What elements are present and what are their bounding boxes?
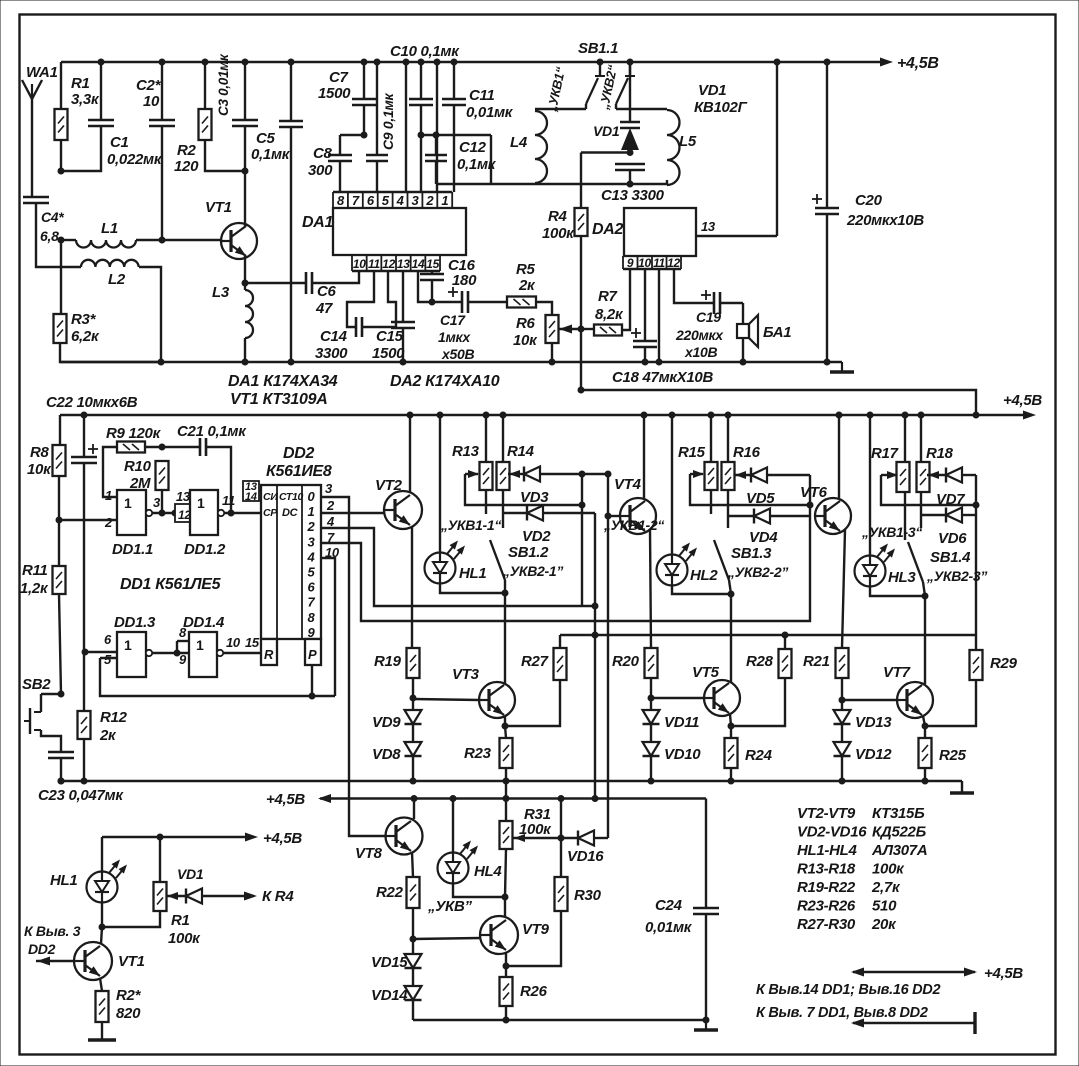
svg-text:С11: С11 [469,87,495,104]
capacitor C12 [425,154,447,157]
svg-text:VD9: VD9 [372,714,401,731]
wire R31 wiper line [513,837,578,839]
wire DD1.3 pin5 loop [100,658,335,696]
wire C8 drop [339,135,341,155]
node R22-VT9base [410,936,417,943]
wire C4 to L2 [36,203,81,267]
svg-text:3: 3 [153,495,161,510]
node C20 rail [824,59,831,66]
node VT9 emitter [503,963,510,970]
wire VT8 emitter [412,852,413,877]
svg-text:300: 300 [308,162,333,179]
wire R17 wiper [881,474,897,476]
plus C18 [631,332,641,334]
svg-text:R9 120к: R9 120к [106,425,162,442]
node R21-VD13 [839,697,846,704]
svg-text:К R4: К R4 [262,888,294,905]
node pin13 rail [774,59,781,66]
svg-text:HL4: HL4 [474,863,502,880]
node rail x421 [418,59,425,66]
wire VT5 base [651,697,704,699]
node VD10 rail [648,778,655,785]
node C24 rail [703,1017,710,1024]
wire R19 bottom [412,678,414,710]
svg-text:VD13: VD13 [855,714,892,731]
wire C8 top [340,134,364,136]
svg-text:3,3к: 3,3к [71,91,100,108]
node VD1-C13 [627,149,634,156]
svg-text:R15: R15 [678,444,706,461]
node R1b rail [157,834,164,841]
svg-text:С4*: С4* [41,209,64,225]
svg-text:R16: R16 [733,444,761,461]
diode VD10 [643,742,660,756]
svg-text:10: 10 [638,256,651,270]
svg-text:VD3: VD3 [520,489,549,506]
svg-text:47: 47 [315,300,333,317]
wire pin11 loop [347,271,374,327]
wire pin12 to C19 [674,269,714,303]
svg-text:11: 11 [653,256,665,270]
svg-text:8,2к: 8,2к [595,306,624,323]
wire lower +4,5V rail [320,797,706,799]
svg-text:2: 2 [104,515,113,530]
capacitor C5 [279,120,303,123]
svg-text:VD4: VD4 [749,529,778,546]
wire C8 bottom [339,161,341,192]
wire R25 bottom [924,768,926,781]
resistor R13 [480,462,493,490]
node DD1.2 in [172,510,179,517]
wire VD1b wiper [166,895,186,897]
svg-text:„УКВ2-3”: „УКВ2-3” [926,568,987,584]
svg-text:2: 2 [326,498,335,513]
wire C19 to BA1 [720,302,743,304]
node C20 rail2 [824,359,831,366]
wire HL1 bottom [440,584,505,593]
svg-text:1: 1 [105,488,112,503]
wire R14 bottom contact [502,490,504,528]
svg-text:10: 10 [325,545,340,560]
svg-text:VD12: VD12 [855,746,892,763]
svg-text:„УКВ1-2“: „УКВ1-2“ [603,517,664,533]
diode VD12 [834,742,851,756]
node VT5 emitter [728,723,735,730]
node HL1 rail [437,412,444,419]
svg-text:6: 6 [367,193,375,208]
node P loop [309,693,316,700]
svg-text:13: 13 [176,489,191,504]
svg-text:DA2: DA2 [592,221,624,238]
svg-text:VD1: VD1 [593,123,620,139]
svg-text:1: 1 [441,193,448,208]
svg-text:VТ1: VТ1 [118,953,145,970]
wire R18 bottom contact [920,492,922,528]
svg-text:БА1: БА1 [763,324,791,341]
capacitor C2 [149,119,175,122]
node C12 top [433,132,440,139]
resistor R27 [554,648,567,680]
transistor VT6 [815,498,851,534]
resistor R25 [919,738,932,768]
wire pin13 riser [776,62,778,236]
wire C10 bottom [420,105,422,135]
svg-text:DD1.3: DD1.3 [114,614,156,631]
LED HL3 [855,556,886,587]
gate DD1.4 bubble [217,650,223,656]
wire VD13-VD12 [841,724,843,742]
node C15 rail [400,359,407,366]
resistor R22 [407,877,420,908]
svg-text:R19: R19 [374,653,402,670]
node R20-VD11 [648,695,655,702]
node R23 rail [503,778,510,785]
wire R28 bottom link [731,678,785,726]
wire DD2 out2 line [321,528,595,606]
svg-text:3: 3 [412,193,420,208]
svg-text:VD11: VD11 [664,714,699,731]
wire L1 to VT1 base [136,239,221,241]
wire R30 bottom [506,911,561,966]
node x595-L606 [592,603,599,610]
capacitor C21 [199,438,202,456]
plus C20 [812,198,822,200]
wire pin5 feed [405,62,407,192]
svg-text:4: 4 [326,514,335,529]
svg-text:VТ8: VТ8 [355,845,383,862]
IC DA2 box [624,208,696,256]
wire BA1 bottom [742,338,744,362]
svg-text:+4,5В: +4,5В [1003,392,1042,409]
wire DD1.2 out [224,512,261,514]
DD2 divider 2 [301,485,303,639]
node rail x406 [403,59,410,66]
wire R7 left [581,328,594,330]
arrow +4,5V top [880,58,893,67]
wire R16 bottom contact [727,490,729,528]
wire R5 to R6 [536,302,552,315]
diode VD15 [405,954,422,968]
wire HL4 bottom [453,884,505,897]
ground top section [841,362,843,372]
svg-text:DD1.2: DD1.2 [184,541,226,558]
wire VD5 line b [768,474,810,476]
wire tune line x595 [594,513,596,799]
capacitor C10 [409,98,433,101]
wire tune line x608 [607,474,609,838]
wire R18 top [920,415,922,462]
capacitor C14 [355,317,358,337]
svg-text:„УКВ2-2”: „УКВ2-2” [727,564,788,580]
svg-text:VD10: VD10 [664,746,701,763]
resistor R16 [722,462,735,490]
wire DD1.3 in [85,651,117,653]
svg-text:R30: R30 [574,887,602,904]
node R30 rail [558,795,565,802]
node C21 out [228,510,235,517]
wire HL2 top [671,415,673,554]
svg-text:8: 8 [308,610,316,625]
svg-text:VD2: VD2 [522,528,551,545]
node R15 rail [708,412,715,419]
wire C6 left [245,282,306,284]
svg-text:С10 0,1мк: С10 0,1мк [390,43,460,60]
capacitor C9 [366,154,388,157]
wire VD10 bottom [650,756,652,781]
resistor R23 [500,738,513,768]
svg-text:SB2: SB2 [22,676,51,693]
node R16 rail [725,412,732,419]
svg-text:2,7к: 2,7к [871,879,901,896]
wire L3 bottom [244,338,246,362]
svg-text:С18 47мкХ10В: С18 47мкХ10В [612,369,713,386]
wire VT2 emitter [411,527,413,648]
wire mid ground rail [60,780,962,782]
wire HL3 bottom [870,587,925,596]
resistor R11 [53,566,66,594]
node HL4 rail [450,795,457,802]
node BA1 rail [740,359,747,366]
wire C10 top [420,62,422,99]
node VT7 emitter [922,723,929,730]
svg-text:100к: 100к [872,861,905,878]
svg-text:DD2: DD2 [28,941,56,957]
wire C5 top [290,62,292,121]
wire pin15 to C16 [431,271,433,274]
wire C2 top [161,62,163,120]
node rail x437 [434,59,441,66]
wire DD1.4 out [223,652,261,654]
svg-text:VТ5: VТ5 [692,664,720,681]
svg-text:VD1: VD1 [177,866,204,882]
node VD3-x608 [605,471,612,478]
svg-text:R29: R29 [990,655,1018,672]
wire pin10 to C18 [644,269,646,341]
svg-text:+4,5В: +4,5В [266,791,305,808]
svg-text:С13 3300: С13 3300 [601,187,665,204]
svg-text:15: 15 [426,257,439,271]
svg-text:R23: R23 [464,745,492,762]
wire DD2 1314 stub [259,490,261,492]
node R12 rail [81,778,88,785]
svg-text:1мкх: 1мкх [438,329,471,345]
wire R15 bottom contact [710,490,712,514]
wire R17 bottom contact [904,492,906,540]
node pin11 rail [656,359,663,366]
wire VT4 collector [643,415,645,498]
transistor VT3 [479,682,515,718]
svg-text:DD1.4: DD1.4 [183,614,225,631]
node VT2 collector rail [407,412,414,419]
svg-text:х10В: х10В [684,344,717,360]
node R31 rail [503,795,510,802]
node HL1b-R1b [99,924,106,931]
switch SB1.2 arm [490,540,505,580]
capacitor C11 [442,98,466,101]
svg-text:6: 6 [308,580,316,595]
svg-text:0,01мк: 0,01мк [466,104,514,121]
node VT3 emitter [502,723,509,730]
svg-text:DD1 К561ЛЕ5: DD1 К561ЛЕ5 [120,576,222,593]
wire R1 bottom [60,140,62,171]
DA1 bottom pin strip [352,270,440,272]
svg-text:R19-R22: R19-R22 [797,879,856,896]
wire C1 bottom [61,126,101,171]
svg-text:VТ2: VТ2 [375,477,403,494]
svg-text:R14: R14 [507,443,535,460]
node DD1.3 in [82,649,89,656]
wire VT9 to R26 [505,966,507,977]
svg-text:VТ1 КТ3109А: VТ1 КТ3109А [230,391,327,408]
wire C9 top [376,62,378,155]
ground R2b [88,1038,116,1042]
node C2 top rail [159,59,166,66]
svg-text:SB1.1: SB1.1 [578,40,618,57]
node VT8 collector rail [411,795,418,802]
wire HL1b bottom [101,902,103,927]
svg-text:DC: DC [282,507,299,519]
svg-text:АЛ307А: АЛ307А [871,842,927,859]
svg-text:КД522Б: КД522Б [872,824,927,841]
svg-text:R28: R28 [746,653,774,670]
wire C17 left [432,301,462,303]
wire L2 right [139,267,161,362]
node R18 rail [918,412,925,419]
diode VD9 [405,710,422,724]
svg-text:2к: 2к [99,727,117,744]
wire C2 bottom [161,126,163,240]
wire R29 bottom link [925,680,976,726]
wire C1 top [100,62,102,120]
wire VD15 top [412,939,414,954]
wire R23 bottom [505,768,507,781]
node y390 rail [973,412,980,419]
wire L634 line [560,634,976,636]
wire L4 to SB1.1 [535,108,586,110]
svg-text:9: 9 [308,625,316,640]
wire R6 bottom [551,343,553,362]
svg-text:12: 12 [382,257,395,271]
svg-text:1: 1 [196,637,204,653]
wire DD1.3-DD1.4 [152,652,189,654]
wire DD2 out3 line [321,475,810,621]
wire L634 to R27 [559,635,561,648]
node R19-VD9 [410,695,417,702]
svg-text:SB1.4: SB1.4 [930,549,971,566]
wire C22 to R12 [83,463,85,711]
svg-text:9: 9 [179,652,187,667]
wire R31 top [505,781,507,821]
node R10 top [159,444,166,451]
wire DD1.1 pin2 [59,519,117,521]
svg-text:0,022мк: 0,022мк [107,151,163,168]
node rail x454 [451,59,458,66]
svg-text:К Выв. 7 DD1, Выв.8 DD2: К Выв. 7 DD1, Выв.8 DD2 [756,1005,928,1021]
node C1 top rail [98,59,105,66]
wire C22 top [83,415,85,457]
svg-text:1: 1 [197,495,205,511]
svg-text:К561ИЕ8: К561ИЕ8 [266,463,332,480]
svg-text:С19: С19 [696,309,721,325]
wire K R4 line [203,895,245,897]
node L2 rail [158,359,165,366]
inductor L1 [61,239,76,241]
svg-text:13: 13 [701,219,716,234]
svg-text:HL2: HL2 [690,567,718,584]
wire R13 top [485,415,487,462]
node R2 top rail [202,59,209,66]
svg-text:HL3: HL3 [888,569,916,586]
resistor R4 [575,208,588,236]
svg-text:С21 0,1мк: С21 0,1мк [177,423,247,440]
svg-text:2: 2 [425,193,434,208]
svg-text:R22: R22 [376,884,404,901]
node SB1.2 pole [502,590,509,597]
wire R31 bottom [505,849,506,897]
svg-text:510: 510 [872,898,897,915]
diode VD16 [577,831,579,846]
node R4-y390 [578,387,585,394]
wire pin11 down [658,269,660,362]
svg-text:11: 11 [222,493,235,508]
wire C12 branch [421,134,491,136]
wire L634 to R29 [975,635,977,650]
wire VD7 line a [927,474,946,476]
wire VT9 base [413,938,480,939]
inductor L5 [667,110,680,185]
svg-text:220мкх10В: 220мкх10В [846,212,924,229]
transistor VT4 [620,498,656,534]
wire C3 bottom [244,126,246,171]
wire C3 top [244,62,246,120]
resistor R1 [55,109,68,140]
wire C20 bottom [826,214,828,362]
svg-text:С17: С17 [440,312,466,328]
wire C9 bottom [376,161,378,192]
svg-text:0,1мк: 0,1мк [251,146,291,163]
wire DD2 out0 to VT8 [321,497,385,836]
svg-text:8: 8 [179,625,187,640]
resistor R9 [117,442,145,453]
svg-text:7: 7 [352,193,360,208]
paper speckle noise [679,43,680,44]
svg-text:VТ1: VТ1 [205,199,232,216]
node R6 rail [549,359,556,366]
svg-text:R25: R25 [939,747,967,764]
wire R13 wiper [465,473,478,475]
LED HL1 bottom [87,872,118,903]
node SB1.1 a [597,59,604,66]
svg-text:2к: 2к [518,277,536,294]
svg-text:R18: R18 [926,445,954,462]
svg-text:DA1 К174ХА34: DA1 К174ХА34 [228,373,338,390]
svg-text:VD6: VD6 [938,530,967,547]
wire rail to R8 [59,415,61,445]
wire VD15-VD14 [412,968,414,986]
node x595 rail end [592,795,599,802]
node L1 left [58,237,65,244]
resistor R20 [645,648,658,678]
capacitor C13 [615,163,645,166]
svg-text:К Выв.14 DD1; Выв.16 DD2: К Выв.14 DD1; Выв.16 DD2 [756,982,940,998]
wire R20 bottom [650,678,652,710]
svg-text:100к: 100к [168,930,201,947]
wire VT3 base [413,699,479,700]
DD2 1314 box [243,481,259,501]
wire R2 top [204,62,206,109]
svg-text:С7: С7 [329,69,349,86]
wire VD14 bottom [412,1000,414,1020]
